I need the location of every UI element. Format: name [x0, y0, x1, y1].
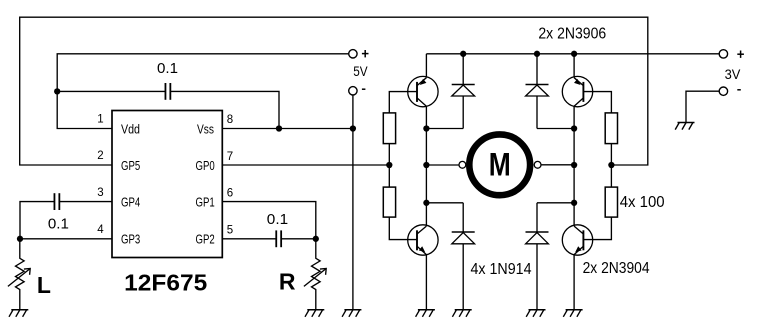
svg-text:2x 2N3906: 2x 2N3906 [538, 26, 606, 43]
potentiometer R (variable resistor) [304, 239, 326, 310]
wire: 3V minus to ground [686, 91, 719, 122]
junction: R pot node [313, 236, 319, 242]
label: - (5V) [362, 88, 366, 90]
svg-text:3V: 3V [725, 67, 741, 82]
ground: 5V supply [342, 310, 361, 317]
wire: GP2 (pin 5) to capacitor C3 [222, 238, 276, 240]
terminal: motor left [459, 161, 466, 168]
wire: GP1 (pin 6) to R pot node [222, 202, 315, 239]
junction: left base resistor node [386, 162, 392, 168]
capacitor C2 [54, 193, 59, 210]
junction: C1 riser on Vss wire [276, 125, 282, 131]
terminal: 3V plus [719, 50, 727, 58]
transistor Q3 2N3904 (lower left NPN) [408, 203, 438, 310]
junction: L pot node [17, 236, 23, 242]
resistor R1 (100 ohm upper left) [383, 113, 395, 144]
junction: rail / D1 [460, 51, 466, 57]
potentiometer L (variable resistor) [8, 239, 30, 310]
svg-text:GP0: GP0 [196, 159, 215, 173]
wire: R3 bottom to R4 top [610, 144, 612, 188]
wire: right node to D4 [537, 202, 574, 204]
wire: C2 to L pot node [20, 202, 54, 239]
wire: capacitor C1 right lead to Vss wire [170, 91, 279, 128]
ground: Q4 emitter [563, 310, 582, 317]
junction: rail / Q2 emitter [571, 51, 577, 57]
junction: rail / D3 [534, 51, 540, 57]
wire: capacitor C1 left lead [57, 90, 165, 92]
diode D2 (1N914 lower left) [452, 203, 475, 310]
wire: right motor node vertical [573, 129, 575, 203]
wire: GP5 (pin 2) outer loop to right H-bridge base node [20, 17, 648, 165]
wire: H-bridge 3V rail [426, 53, 719, 55]
svg-text:GP3: GP3 [121, 233, 140, 247]
wire: GP4 (pin 3) to capacitor C2 [60, 201, 112, 203]
wire: D1 to left motor node [426, 128, 463, 130]
svg-text:6: 6 [227, 188, 233, 200]
label: + (3V) [737, 51, 744, 58]
svg-text:5: 5 [227, 225, 233, 237]
svg-text:L: L [37, 272, 51, 298]
svg-text:GP5: GP5 [121, 159, 140, 173]
junction: left node / motor [423, 162, 429, 168]
ground: Q3 emitter [416, 310, 435, 317]
capacitor C1 [165, 83, 170, 100]
svg-text:7: 7 [227, 151, 233, 163]
svg-text:2: 2 [97, 150, 103, 162]
terminal: 5V plus [349, 50, 357, 58]
diode D3 (1N914 upper right) [526, 54, 549, 129]
svg-text:0.1: 0.1 [157, 60, 178, 77]
svg-text:4x 1N914: 4x 1N914 [471, 261, 532, 278]
terminal: motor right [534, 161, 541, 168]
diode D4 (1N914 lower right) [526, 203, 549, 310]
wire: right PNP base / R3 top lead [583, 92, 611, 113]
label: + (5V) [362, 50, 369, 57]
junction: right node / D4 [571, 200, 577, 206]
junction: 5V minus on Vss wire [350, 125, 356, 131]
wire: left motor node vertical [425, 129, 427, 203]
ground: R pot [305, 310, 324, 317]
ground: L pot [9, 310, 28, 317]
junction: left node / D2 [423, 200, 429, 206]
wire: GP0 (pin 7) to left base resistor node [222, 164, 389, 166]
motor M1 body [469, 134, 530, 195]
terminal: 3V minus [719, 87, 727, 95]
wire: 5V+ rail down to Vdd (pin 1) [57, 54, 348, 129]
IC U1 12F675 (8-pin DIP) body [112, 111, 222, 258]
ground: 3V supply [675, 123, 694, 130]
svg-text:GP1: GP1 [196, 195, 215, 209]
svg-text:0.1: 0.1 [48, 216, 69, 233]
wire: left PNP base / R1 top lead [389, 92, 417, 113]
wire: 5V minus to ground [352, 95, 354, 310]
svg-text:3: 3 [97, 187, 103, 199]
wire: motor right terminal to right motor node [541, 164, 574, 166]
terminal: 5V minus [349, 87, 357, 95]
svg-text:GP4: GP4 [121, 195, 140, 209]
wire: D3 to right motor node [537, 128, 574, 130]
svg-text:1: 1 [97, 114, 103, 126]
svg-text:12F675: 12F675 [124, 269, 207, 295]
wire: Vss (pin 8) to 5V minus [222, 128, 353, 130]
wire: C3 to R pot node [281, 238, 316, 240]
wire: R1 bottom to R2 top [388, 144, 390, 188]
resistor R2 (100 ohm lower left) [383, 187, 395, 217]
label: - (3V) [737, 89, 741, 91]
svg-text:Vdd: Vdd [121, 122, 140, 136]
diode D1 (1N914 upper left) [452, 54, 475, 129]
junction: right node / D3 [571, 125, 577, 131]
wire: left node to motor left terminal [426, 164, 459, 166]
svg-text:M: M [489, 146, 511, 182]
ground: D4 anode [526, 310, 545, 317]
wire: R4 bottom to right NPN base [583, 217, 611, 240]
resistor R4 (100 ohm lower right) [605, 187, 617, 217]
capacitor C3 [276, 230, 281, 247]
svg-text:R: R [279, 268, 296, 294]
svg-text:5V: 5V [353, 64, 367, 79]
junction: C1 tap on Vdd riser [54, 88, 60, 94]
svg-text:GP2: GP2 [196, 233, 215, 247]
junction: left node / D1 [423, 125, 429, 131]
transistor Q1 2N3906 (upper left PNP) [408, 54, 438, 129]
junction: right node / motor [571, 162, 577, 168]
svg-text:2x 2N3904: 2x 2N3904 [583, 260, 650, 277]
resistor R3 (100 ohm upper right) [605, 113, 617, 144]
ground: D2 anode [452, 310, 471, 317]
svg-text:4x 100: 4x 100 [620, 194, 665, 211]
svg-text:4: 4 [97, 224, 104, 236]
transistor Q2 2N3906 (upper right PNP) [562, 54, 592, 129]
svg-text:0.1: 0.1 [267, 211, 288, 228]
svg-text:8: 8 [227, 114, 233, 126]
wire: left node to D2 [426, 202, 463, 204]
wire: R2 bottom to left NPN base [389, 217, 417, 240]
junction: right base resistor node [608, 162, 614, 168]
svg-text:Vss: Vss [197, 122, 214, 136]
wire: GP3 (pin 4) to L pot node [20, 238, 112, 240]
transistor Q4 2N3904 (lower right NPN) [562, 203, 592, 310]
